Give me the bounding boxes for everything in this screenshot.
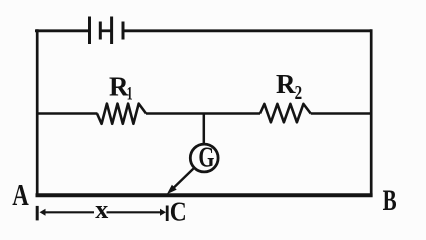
wire middle right (R2 to B side) [311,112,372,115]
dimension x right arrowhead [160,209,166,216]
jockey arrow head at C [167,185,177,194]
svg-text:C: C [170,196,187,223]
wire top-left to battery [35,29,90,32]
battery cell plate long 1 [88,17,91,45]
dimension x left tick [36,206,39,221]
svg-text:x: x [95,195,108,223]
svg-text:A: A [12,177,29,212]
wire battery to top-right corner [123,29,371,32]
dimension x line left [45,211,95,213]
wire middle left (A to R1) [36,112,97,115]
resistor R1 [97,104,146,124]
wire battery inter-cell bridge [100,29,111,32]
jockey arrow shaft from G to C [173,169,194,189]
svg-text:1: 1 [127,84,133,105]
battery cell plate short 1 [99,22,102,40]
wire junction to galvanometer [203,113,206,145]
battery cell plate long 2 [110,17,113,45]
wire middle center (R1 to R2 through node D) [146,112,260,115]
wire bottom A-B [36,193,373,197]
svg-text:2: 2 [295,82,303,104]
svg-text:R: R [276,69,296,99]
svg-text:G: G [198,143,214,174]
resistor R2 [260,104,311,122]
dimension x left arrowhead [40,209,46,216]
wire left side A-top [36,29,39,197]
wire right side top-B [370,29,373,197]
battery cell plate short 2 [122,22,125,40]
dimension x right tick [166,206,169,222]
dimension x line right [107,211,162,213]
svg-text:B: B [383,184,397,217]
galvanometer G circle [190,144,218,172]
